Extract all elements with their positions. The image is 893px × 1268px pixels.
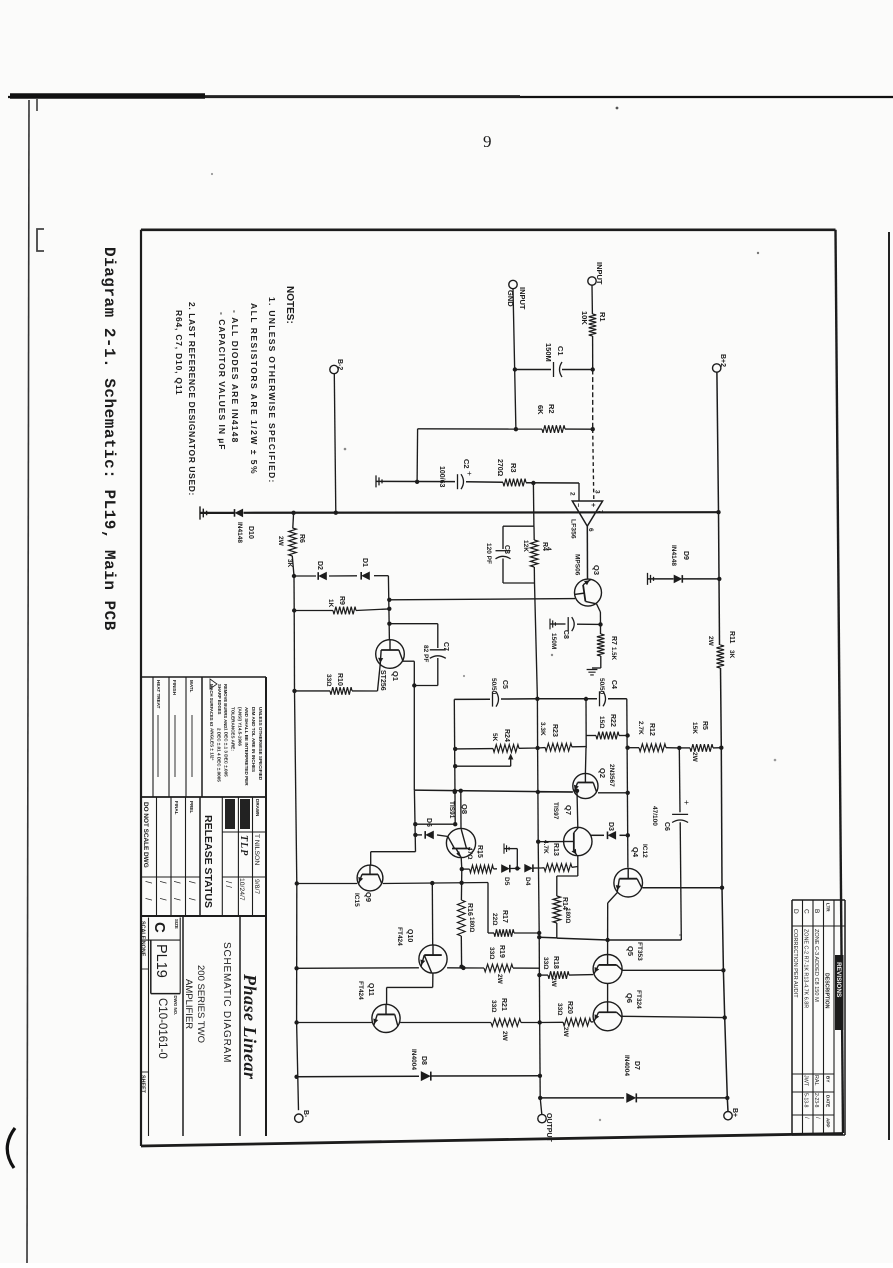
svg-text:INPUT: INPUT bbox=[518, 287, 527, 310]
resistor R2 row bbox=[418, 428, 542, 430]
transistor Q6 FT324 bbox=[593, 1002, 622, 1031]
svg-text:FT353: FT353 bbox=[636, 942, 643, 961]
svg-text:+: + bbox=[467, 469, 472, 478]
svg-text:D7: D7 bbox=[633, 1061, 640, 1070]
diode D6 row bbox=[416, 834, 423, 836]
wire Q1 emitter stub bbox=[378, 665, 381, 692]
resistor R13 bbox=[541, 867, 544, 869]
svg-text:R6: R6 bbox=[298, 534, 305, 543]
wire pin2 corner bbox=[578, 483, 580, 501]
svg-text:120 PF: 120 PF bbox=[485, 543, 492, 564]
capacitor C6 (electrolytic) bbox=[678, 748, 681, 812]
svg-text:T NILSON: T NILSON bbox=[253, 834, 260, 865]
svg-text:D6: D6 bbox=[425, 818, 432, 827]
svg-text:Q5: Q5 bbox=[626, 946, 635, 956]
terminal INPUT bbox=[588, 277, 596, 285]
svg-text:INPUT: INPUT bbox=[595, 262, 604, 285]
resistor R3 bbox=[503, 479, 526, 487]
svg-text:3K: 3K bbox=[286, 559, 293, 568]
resistor R19 bbox=[447, 967, 463, 969]
svg-text:D1: D1 bbox=[361, 558, 368, 567]
svg-text:ST256: ST256 bbox=[379, 670, 386, 691]
resistor R18 bbox=[539, 974, 548, 976]
wire Q2 collector bbox=[598, 792, 628, 794]
svg-text:R13: R13 bbox=[552, 843, 559, 856]
svg-text:DIM AND TOL ARE IN INCHES: DIM AND TOL ARE IN INCHES bbox=[251, 707, 256, 772]
wire x415 vertical bbox=[414, 790, 415, 852]
svg-text:FT424: FT424 bbox=[396, 927, 403, 946]
svg-text:150M: 150M bbox=[544, 343, 553, 362]
svg-text:/ /: / / bbox=[224, 881, 233, 888]
wire Q5 collector bbox=[622, 969, 723, 971]
svg-text:10K: 10K bbox=[580, 311, 589, 325]
diode D9 to ground bbox=[648, 573, 654, 585]
svg-text:IN4004: IN4004 bbox=[623, 1055, 630, 1076]
svg-text:+: + bbox=[684, 797, 689, 807]
svg-text:B+2: B+2 bbox=[719, 354, 726, 367]
resistor R15 bbox=[470, 865, 494, 873]
svg-text:2N3567: 2N3567 bbox=[608, 764, 615, 787]
wire x586 vertical bbox=[585, 699, 587, 748]
svg-text:4.7K: 4.7K bbox=[542, 840, 549, 854]
svg-text:Q4: Q4 bbox=[631, 847, 640, 858]
wire Q9 collector row bbox=[383, 883, 488, 884]
resistor R5 bbox=[679, 747, 690, 749]
svg-text:C3: C3 bbox=[503, 545, 510, 554]
svg-text:R15: R15 bbox=[476, 845, 483, 858]
diode D7 row bbox=[540, 1097, 624, 1099]
svg-text:9: 9 bbox=[483, 132, 492, 151]
small tick below bar bbox=[36, 99, 38, 111]
svg-text:TIS97: TIS97 bbox=[552, 802, 559, 820]
svg-text:Q11: Q11 bbox=[367, 983, 374, 996]
resistor R1 bbox=[589, 314, 597, 336]
svg-text:R16: R16 bbox=[466, 903, 473, 916]
svg-text:3.3K: 3.3K bbox=[539, 722, 546, 736]
svg-text:33Ω: 33Ω bbox=[556, 1003, 563, 1015]
svg-text:APP: APP bbox=[826, 1118, 831, 1127]
top scan bar bbox=[8, 96, 893, 98]
wire op-amp output bbox=[586, 526, 588, 579]
svg-text:2W: 2W bbox=[277, 536, 284, 547]
svg-text:DWG NO.: DWG NO. bbox=[173, 996, 178, 1016]
svg-text:IN4148: IN4148 bbox=[236, 522, 243, 543]
svg-text:R64, C7, D10, Q11: R64, C7, D10, Q11 bbox=[174, 310, 184, 395]
resistor R14 bbox=[557, 875, 578, 877]
svg-text:2: 2 bbox=[569, 492, 576, 496]
wire Q7 base bbox=[538, 841, 563, 843]
resistor R11 bbox=[717, 645, 725, 668]
wire jog to x455 bbox=[415, 823, 455, 825]
svg-text:33Ω: 33Ω bbox=[325, 674, 332, 686]
wire x455 vertical bbox=[453, 699, 456, 824]
bottom strip bbox=[148, 918, 150, 1137]
left margin line bbox=[27, 100, 29, 1263]
wire Q9 emitter row bbox=[297, 883, 357, 885]
capacitor C1 bbox=[515, 369, 552, 371]
svg-text:SCALE NONE: SCALE NONE bbox=[140, 921, 146, 957]
svg-text:B: B bbox=[813, 909, 820, 913]
svg-text:2W: 2W bbox=[550, 977, 557, 988]
tolerance cell bbox=[140, 796, 266, 798]
svg-text:R12: R12 bbox=[648, 723, 655, 736]
svg-text:C: C bbox=[151, 922, 168, 933]
svg-text:DRAWN: DRAWN bbox=[255, 799, 260, 817]
resistor R9 bbox=[294, 610, 333, 612]
transistor Q1 ST256 bbox=[376, 640, 405, 669]
svg-text:2W: 2W bbox=[496, 974, 503, 985]
transistor Q9 IC15 bbox=[357, 865, 383, 891]
terminal B- bbox=[295, 1114, 303, 1122]
svg-text:22Ω: 22Ω bbox=[491, 913, 498, 925]
wire Q4 emitter bbox=[608, 892, 618, 903]
svg-text:ZONE C-2 R7-1K R13-4.7K 6.8R: ZONE C-2 R7-1K R13-4.7K 6.8R bbox=[803, 929, 809, 1008]
diode D3 bbox=[591, 834, 604, 836]
svg-text:REMOVE BURRS AND: REMOVE BURRS AND bbox=[223, 684, 228, 728]
svg-text:ZONE C-3 ADDED C8 150 M: ZONE C-3 ADDED C8 150 M bbox=[813, 929, 819, 1002]
wire Q8 emitter junction bbox=[460, 858, 463, 869]
svg-text:R9: R9 bbox=[338, 596, 345, 605]
svg-text:Q9: Q9 bbox=[364, 892, 373, 902]
resistor R22 bbox=[586, 735, 596, 737]
svg-text:9/8/7: 9/8/7 bbox=[253, 879, 260, 894]
resistor R4 (on line) bbox=[530, 540, 538, 567]
wire Q10 collector row bbox=[297, 967, 419, 970]
resistor R23 bbox=[538, 747, 545, 749]
resistor R16 bbox=[460, 869, 462, 900]
svg-text:2. LAST REFERENCE DESIGNATOR U: 2. LAST REFERENCE DESIGNATOR USED: bbox=[187, 302, 197, 496]
svg-text:D5: D5 bbox=[503, 877, 510, 886]
svg-text:IN4004: IN4004 bbox=[410, 1049, 417, 1070]
transistor Q5 FT353 bbox=[593, 955, 622, 984]
wire Q9 base bbox=[371, 851, 416, 853]
transistor Q7 TIS97 bbox=[564, 827, 592, 855]
svg-text:Diagram 2-1. Schematic: PL19: Diagram 2-1. Schematic: PL19, Main PCB bbox=[100, 247, 118, 631]
wire Q1 collector bbox=[402, 660, 414, 662]
svg-text:50/50: 50/50 bbox=[490, 678, 497, 695]
transistor Q4 IC12 bbox=[614, 868, 643, 897]
svg-text:12K: 12K bbox=[522, 540, 529, 552]
svg-text:1.5K: 1.5K bbox=[610, 647, 617, 661]
wire Q10 emitter to Q11 base bbox=[432, 973, 434, 987]
svg-text:D: D bbox=[792, 909, 799, 914]
svg-text:C5: C5 bbox=[501, 680, 508, 689]
diode D8 row bbox=[297, 1075, 419, 1078]
svg-text:C1: C1 bbox=[556, 346, 565, 356]
svg-text:1 DEC ±.1 3 DEC ±.005: 1 DEC ±.1 3 DEC ±.005 bbox=[224, 728, 229, 777]
svg-text:REVISIONS: REVISIONS bbox=[835, 962, 842, 998]
svg-text:R5: R5 bbox=[701, 721, 708, 730]
diode D2 / D1 row bbox=[294, 575, 316, 577]
wire to B+ terminal bbox=[726, 1098, 729, 1112]
svg-text:AND SHALL BE INTERPRETED PER: AND SHALL BE INTERPRETED PER bbox=[244, 707, 249, 786]
svg-text:B-: B- bbox=[302, 1110, 309, 1118]
diode D5 bbox=[501, 864, 510, 873]
wire Q3 base line bbox=[389, 599, 575, 600]
wire input-gnd drop bbox=[513, 289, 516, 429]
svg-text:2 DEC ±.01 4 DEC ±.0005: 2 DEC ±.01 4 DEC ±.0005 bbox=[217, 728, 222, 782]
svg-text:180Ω: 180Ω bbox=[468, 917, 475, 932]
svg-text:C: C bbox=[803, 909, 810, 914]
svg-text:RELEASE STATUS: RELEASE STATUS bbox=[202, 815, 214, 908]
svg-text:FT324: FT324 bbox=[635, 990, 642, 1009]
svg-text:FINAL: FINAL bbox=[174, 801, 179, 815]
svg-text:D2: D2 bbox=[316, 561, 323, 570]
wire feedback continues bbox=[535, 583, 538, 699]
pot wiper bbox=[510, 757, 512, 766]
svg-text:R22: R22 bbox=[609, 714, 616, 727]
svg-text:3: 3 bbox=[594, 490, 601, 494]
svg-text:SCHEMATIC DIAGRAM: SCHEMATIC DIAGRAM bbox=[221, 942, 232, 1063]
svg-text:6K: 6K bbox=[536, 405, 545, 415]
svg-text:R2: R2 bbox=[547, 404, 556, 414]
svg-text:- ALL DIODES ARE IN4148: - ALL DIODES ARE IN4148 bbox=[230, 310, 240, 444]
svg-text:R17: R17 bbox=[501, 910, 508, 923]
right page edge line bbox=[888, 232, 890, 1140]
resistor R20 bbox=[540, 1021, 563, 1023]
wire Q10 base drop bbox=[431, 883, 433, 945]
svg-text:R4: R4 bbox=[541, 542, 548, 551]
svg-text:15K: 15K bbox=[691, 722, 698, 734]
wire feedback vertical bbox=[532, 483, 535, 526]
svg-text:CORRECTION PER AUDIT: CORRECTION PER AUDIT bbox=[792, 929, 798, 998]
svg-text:PREL: PREL bbox=[189, 801, 194, 813]
terminal B+2 bbox=[713, 364, 721, 372]
svg-text:RAL: RAL bbox=[813, 1075, 819, 1086]
phase linear cell bbox=[239, 916, 241, 1136]
svg-text:D9: D9 bbox=[682, 551, 689, 560]
svg-text:2W: 2W bbox=[501, 1031, 508, 1042]
svg-text:FT424: FT424 bbox=[357, 981, 364, 1000]
svg-text:Q10: Q10 bbox=[406, 929, 413, 942]
scan specks bbox=[344, 448, 347, 451]
svg-text:5K: 5K bbox=[491, 733, 498, 742]
wire C5/C4 row bbox=[454, 698, 490, 700]
terminal B-2 left bbox=[330, 365, 338, 373]
svg-text:100/63: 100/63 bbox=[438, 466, 445, 488]
svg-text:R7: R7 bbox=[610, 636, 617, 645]
svg-text:R10: R10 bbox=[336, 673, 343, 686]
wire rail mid bbox=[720, 668, 723, 748]
ground mid D5/D4 bbox=[504, 844, 509, 854]
svg-text:33Ω: 33Ω bbox=[490, 1000, 497, 1012]
capacitor C3 bracket bbox=[503, 525, 534, 527]
svg-text:Q6: Q6 bbox=[625, 993, 634, 1003]
svg-text:5-13-8: 5-13-8 bbox=[803, 1093, 809, 1108]
resistor R24 pot bbox=[455, 748, 493, 750]
title block outer bbox=[265, 677, 267, 1136]
svg-text:180Ω: 180Ω bbox=[564, 908, 571, 923]
svg-text:ANGLES ± 1/2°: ANGLES ± 1/2° bbox=[210, 728, 215, 761]
row y790 bias rail bbox=[414, 790, 572, 792]
svg-text:200 SERIES TWO: 200 SERIES TWO bbox=[195, 965, 206, 1043]
resistor R10 bbox=[295, 690, 331, 692]
svg-text:R20: R20 bbox=[566, 1001, 573, 1014]
svg-text:MPS06: MPS06 bbox=[574, 554, 581, 576]
svg-text:−: − bbox=[574, 503, 581, 507]
resistor R17 bbox=[487, 883, 489, 934]
middle rows: drawn/checked/appd bbox=[140, 796, 266, 798]
svg-text:10/24/7: 10/24/7 bbox=[238, 878, 245, 901]
svg-text:TOLERANCES ARE:: TOLERANCES ARE: bbox=[230, 707, 235, 751]
svg-text:15Ω: 15Ω bbox=[598, 716, 605, 728]
svg-text:OUTPUT: OUTPUT bbox=[545, 1113, 552, 1143]
wire input line w/ R1 bbox=[591, 285, 593, 314]
svg-text:IC12: IC12 bbox=[641, 844, 648, 858]
svg-text:2W: 2W bbox=[707, 636, 714, 647]
svg-text:(ANSI) Y14.5-1966: (ANSI) Y14.5-1966 bbox=[237, 707, 242, 746]
svg-text:1K: 1K bbox=[327, 599, 334, 608]
wire R1 to op-amp pin3 bbox=[592, 336, 594, 370]
svg-text:47/100: 47/100 bbox=[651, 806, 658, 826]
resistor R7 bbox=[600, 624, 602, 634]
svg-text:TLP: TLP bbox=[238, 835, 249, 856]
wire Q7 collector up bbox=[576, 791, 579, 828]
ground main bus left bbox=[200, 506, 207, 519]
svg-text:2-23-8: 2-23-8 bbox=[813, 1093, 819, 1108]
svg-text:C6: C6 bbox=[663, 822, 670, 831]
svg-text:150M: 150M bbox=[550, 633, 557, 649]
svg-text:3K: 3K bbox=[728, 650, 735, 659]
svg-text:Q1: Q1 bbox=[391, 671, 400, 681]
resistor R6 bbox=[292, 515, 295, 528]
svg-text:IN4148: IN4148 bbox=[670, 545, 677, 566]
wire Q11 rows bbox=[297, 1022, 372, 1024]
svg-text:82 PF: 82 PF bbox=[422, 645, 429, 662]
svg-text:B+: B+ bbox=[731, 1108, 738, 1117]
svg-text:R11: R11 bbox=[728, 631, 735, 644]
terminal B+ bbox=[724, 1112, 732, 1120]
left material rows bbox=[185, 677, 187, 797]
svg-text:50/50: 50/50 bbox=[598, 678, 605, 695]
svg-text:R24: R24 bbox=[503, 729, 510, 742]
schematic sheet frame bbox=[141, 229, 836, 232]
wire Q3 emitter/collector drop bbox=[597, 604, 601, 612]
svg-text:MACH SURFACES 63: MACH SURFACES 63 bbox=[209, 684, 214, 727]
svg-text:R19: R19 bbox=[498, 945, 505, 958]
transistor Q11 FT424 bbox=[372, 1004, 400, 1032]
wire C2/R3 row bbox=[376, 480, 455, 482]
svg-text:B-2: B-2 bbox=[336, 359, 343, 370]
svg-text:C10-0161-0: C10-0161-0 bbox=[156, 998, 168, 1059]
svg-text:NOTES:: NOTES: bbox=[284, 286, 295, 324]
svg-text:Phase Linear: Phase Linear bbox=[240, 973, 260, 1080]
svg-text:LF356: LF356 bbox=[570, 519, 577, 539]
bottom-left curve smudge bbox=[7, 1128, 15, 1168]
wire x627 vertical bbox=[627, 699, 628, 868]
wire Q5 base bbox=[607, 940, 609, 955]
terminal OUTPUT bbox=[538, 1114, 546, 1122]
size / PL19 / dwg no cells bbox=[140, 939, 180, 941]
svg-text:33Ω: 33Ω bbox=[488, 947, 495, 959]
svg-text:2.7K: 2.7K bbox=[637, 721, 644, 735]
svg-text:R21: R21 bbox=[500, 998, 507, 1011]
capacitor C5 bbox=[492, 692, 494, 707]
svg-text:2W: 2W bbox=[691, 752, 698, 763]
svg-text:HEAT TREAT: HEAT TREAT bbox=[156, 680, 161, 709]
svg-text:33Ω: 33Ω bbox=[542, 957, 549, 969]
svg-text:Q2: Q2 bbox=[598, 768, 607, 778]
svg-text:D10: D10 bbox=[247, 526, 254, 539]
svg-text:UNLESS OTHERWISE SPECIFIED: UNLESS OTHERWISE SPECIFIED bbox=[258, 707, 263, 781]
svg-text:BY: BY bbox=[826, 1076, 831, 1082]
capacitor C4 bbox=[599, 691, 601, 706]
transistor Q10 FT424 bbox=[419, 945, 447, 973]
diode D4 bbox=[524, 864, 533, 873]
wire Q4 collector row bbox=[642, 883, 644, 888]
wire drive row y940 bbox=[539, 936, 557, 939]
svg-text:MATL: MATL bbox=[189, 680, 194, 693]
svg-text:D4: D4 bbox=[524, 877, 531, 886]
svg-text:TIS91: TIS91 bbox=[448, 801, 455, 819]
svg-text:C4: C4 bbox=[610, 680, 617, 689]
svg-text:C8: C8 bbox=[562, 630, 569, 639]
wire Q6 collector bbox=[622, 1016, 725, 1017]
wire left rail long bbox=[293, 576, 295, 611]
bracket smudge left bbox=[37, 229, 44, 251]
svg-text:Q3: Q3 bbox=[592, 565, 601, 575]
svg-text:R1: R1 bbox=[598, 312, 607, 322]
svg-text:C2: C2 bbox=[462, 459, 471, 469]
wire B+2 rail upper bbox=[717, 372, 719, 512]
transistor Q2 2N3567 bbox=[573, 773, 598, 798]
svg-text:SHEET: SHEET bbox=[140, 1075, 146, 1094]
svg-text:DATE: DATE bbox=[826, 1095, 831, 1107]
wire D1 corner to Q1 base bbox=[388, 576, 389, 640]
svg-text:1. UNLESS OTHERWISE SPECIFIED:: 1. UNLESS OTHERWISE SPECIFIED: bbox=[267, 297, 277, 484]
svg-text:Q7: Q7 bbox=[564, 805, 573, 815]
dot speck bbox=[616, 107, 619, 110]
capacitor C7 branch bbox=[389, 623, 437, 625]
svg-text:+: + bbox=[589, 503, 596, 507]
svg-text:SHARP EDGES: SHARP EDGES bbox=[217, 684, 222, 715]
svg-text:- CAPACITOR VALUES IN µF: - CAPACITOR VALUES IN µF bbox=[217, 312, 227, 450]
wire B-2 drop bbox=[334, 374, 336, 513]
svg-text:R18: R18 bbox=[552, 956, 559, 969]
svg-text:JWT: JWT bbox=[803, 1075, 809, 1087]
op-amp U1 LF356 bbox=[572, 501, 602, 526]
transistor Q3 bbox=[575, 579, 602, 606]
capacitor C8 bbox=[550, 619, 555, 630]
svg-text:FINISH: FINISH bbox=[172, 680, 177, 696]
wire Q5-Q6 link bbox=[607, 984, 609, 1002]
svg-text:LTR: LTR bbox=[826, 903, 831, 912]
wire Q7 emitter bbox=[577, 856, 579, 876]
svg-text:SIZE: SIZE bbox=[174, 919, 179, 929]
svg-text:ALL RESISTORS ARE 1/2W ± 5%: ALL RESISTORS ARE 1/2W ± 5% bbox=[249, 303, 259, 475]
svg-text:IC15: IC15 bbox=[353, 893, 360, 907]
svg-text:R3: R3 bbox=[509, 463, 518, 473]
diode D10 bbox=[235, 509, 244, 518]
resistor R12 bbox=[628, 747, 639, 749]
svg-text:R23: R23 bbox=[551, 724, 558, 737]
wire R2 corner drop bbox=[416, 429, 419, 482]
ground for C2 leg bbox=[376, 475, 382, 487]
wire Q2 emitter row bbox=[538, 791, 573, 793]
svg-text:2W: 2W bbox=[562, 1027, 569, 1038]
slash grid rows bbox=[185, 797, 187, 916]
svg-text:D3: D3 bbox=[607, 822, 614, 831]
terminal INPUT GND bbox=[509, 280, 517, 288]
svg-text:DO NOT SCALE DWG: DO NOT SCALE DWG bbox=[142, 802, 149, 868]
wire Q8 collector up bbox=[460, 791, 462, 829]
svg-text:C7: C7 bbox=[442, 642, 449, 651]
wire main bus bbox=[200, 512, 234, 514]
revision table bbox=[844, 900, 846, 1135]
svg-text:D8: D8 bbox=[420, 1056, 427, 1065]
svg-text:AMPLIFIER: AMPLIFIER bbox=[183, 979, 194, 1029]
transistor Q8 TIS91 bbox=[446, 828, 475, 857]
